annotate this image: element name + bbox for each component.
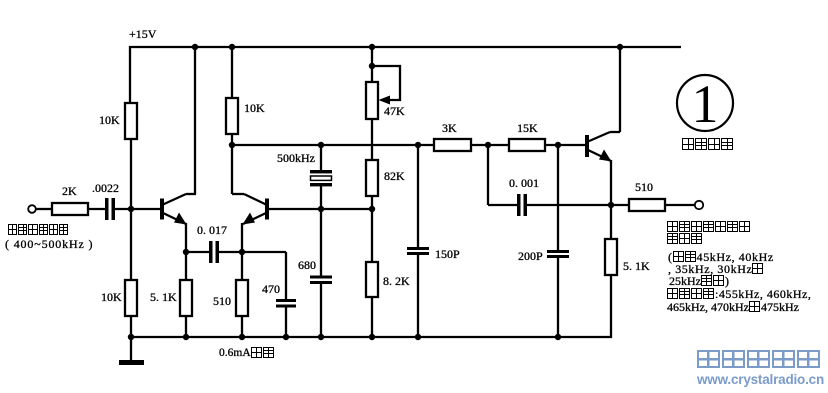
wire C0022 to Q1 base [115, 208, 160, 210]
node Q3 base / C200P branch [555, 142, 561, 148]
note line1 [667, 221, 751, 233]
wire Q3 emitter down [610, 160, 612, 205]
wire Q1 collector to rail [194, 47, 196, 194]
wire 3K to 15K [471, 144, 509, 146]
resistor R1 10K [125, 103, 137, 139]
badge circled 1 [677, 74, 733, 134]
wire node to R7 [371, 209, 373, 262]
label 470 [262, 283, 280, 295]
wire rail to R4 [231, 47, 233, 98]
resistor R6 82K [366, 160, 378, 196]
wire 15K to Q3 base [545, 144, 585, 146]
node input base node [128, 206, 134, 212]
wire resonator bottom lead [320, 185, 322, 209]
node Q2 emitter / C017 right [239, 249, 245, 255]
label 15K [517, 122, 538, 134]
wire C001 to emitter node [527, 204, 611, 206]
transistor Q3 [585, 132, 620, 162]
capacitor C .0022 [105, 198, 115, 220]
label 82K [384, 170, 405, 182]
wire R1 bottom to input node [130, 139, 132, 209]
resistor R3 5.1K [180, 280, 192, 316]
wire 2K to C0022 [88, 208, 105, 210]
label 2K [62, 185, 77, 197]
resistor R4 10K [226, 98, 238, 134]
node bus at resonator [318, 142, 324, 148]
node ground rail at C200P [555, 334, 561, 340]
label 3K [442, 122, 457, 134]
label 0.001 [509, 177, 539, 189]
note line3 [668, 251, 774, 263]
label R4 10K [244, 102, 265, 114]
wire C680 to ground rail [320, 284, 322, 337]
ground [119, 337, 144, 363]
wire mid bus y145 [232, 144, 434, 146]
label 500kHz [277, 152, 315, 164]
capacitor C 200P [547, 250, 569, 258]
resistor R5 510 [236, 280, 248, 316]
wire R3 to ground rail [185, 316, 187, 337]
resistor R9 510 [629, 199, 665, 211]
wire C200P to ground rail [557, 258, 559, 337]
wire Q1 emitter down [185, 223, 187, 252]
label 680 [298, 259, 316, 271]
label 510 output [635, 181, 653, 193]
wire R5 to ground rail [241, 316, 243, 337]
wire C001 branch [488, 145, 517, 205]
wire C150P top lead [417, 145, 419, 247]
wire pot bottom through bus to R6 [371, 119, 373, 160]
node base bus at resonator/C680 [318, 206, 324, 212]
label 5.1K right [623, 260, 650, 272]
node ground rail at C150P [415, 334, 421, 340]
note line7 [667, 301, 799, 313]
note line2 [667, 233, 703, 245]
node top rail at Q3 collector [617, 44, 623, 50]
wire R4 to bus node [231, 134, 233, 145]
resistor 2K [52, 203, 88, 215]
note line5 [669, 275, 729, 287]
wire Q2 collector [232, 145, 266, 205]
wire R6 to base bus [371, 196, 373, 209]
resistor 15K [509, 139, 545, 151]
note line6 [667, 288, 811, 300]
capacitor C 470 [276, 299, 296, 308]
label sweep input line2 [5, 238, 93, 250]
label .0022 [92, 182, 119, 194]
capacitor C 0.017 [209, 241, 219, 263]
watermark url [697, 372, 824, 387]
label 8.2K [383, 275, 410, 287]
label +15V [129, 28, 156, 40]
wire C680 top lead [320, 209, 322, 276]
wire Q3 collector to rail [619, 47, 621, 132]
wire 470 branch top [242, 252, 286, 299]
wire bottom ground rail [131, 336, 612, 338]
node top rail at 10K R4 [229, 44, 235, 50]
node ground rail at C680 [318, 334, 324, 340]
resistor R2 10K [125, 280, 137, 316]
label circuit name [682, 138, 734, 150]
node top rail at Q1 collector [192, 44, 198, 50]
wire Q2 emitter down [241, 223, 243, 252]
wire emitter node to R5 [241, 252, 243, 280]
wire C017 right lead [219, 251, 242, 253]
node ground rail at R2 [128, 334, 134, 340]
transistor Q2 [243, 199, 270, 225]
wire left column from rail to R1 [129, 46, 131, 103]
node Q3 emitter / output [608, 202, 614, 208]
wire emitter node to R8 [610, 205, 612, 239]
watermark logo [697, 350, 822, 368]
svg-text:1: 1 [692, 74, 719, 134]
wire rail to 47K pot [371, 47, 373, 82]
resistor 3K [434, 139, 471, 151]
wire resonator top lead [320, 145, 322, 171]
node bus at R4 / Q2 collector [229, 142, 235, 148]
resistor R7 8.2K [366, 262, 378, 297]
wire C017 left lead [186, 251, 209, 253]
capacitor C 0.001 [517, 194, 527, 216]
node ground rail at R3 [183, 334, 189, 340]
resistor R8 5.1K [605, 239, 617, 275]
wire Q2 base bus [269, 208, 372, 210]
capacitor C 680 [310, 276, 332, 285]
label 0.017 [197, 224, 227, 236]
potentiometer 47K wiper [372, 66, 400, 105]
wire input node down to R2 [130, 209, 132, 280]
label 200P [518, 250, 543, 262]
wire 470 to ground rail [285, 307, 287, 337]
node top rail at 47K pot [369, 44, 375, 50]
node bus at C001 [485, 142, 491, 148]
wire R2 bottom to ground rail [130, 316, 132, 338]
label 47K [384, 105, 405, 117]
node wiper tap [369, 63, 375, 69]
wire +15V top rail [129, 46, 681, 48]
wire C150P to ground rail [417, 255, 419, 337]
wire output node to R9 [611, 204, 629, 206]
label R2 10K [101, 291, 122, 303]
resonator 500kHz [310, 170, 332, 186]
node base bus at R6/R7 [369, 206, 375, 212]
wire input to R2K [36, 208, 52, 210]
wire R8 to ground rail [610, 275, 612, 338]
terminal output [695, 201, 703, 209]
wire C200P branch [557, 145, 559, 250]
label 5.1K left [150, 291, 177, 303]
label 150P [435, 248, 460, 260]
node Q1 emitter / C017 left [183, 249, 189, 255]
node ground rail at C470 [283, 334, 289, 340]
wire R9 to output terminal [665, 204, 694, 206]
transistor Q1 [160, 194, 196, 225]
wire R7 to ground rail [371, 297, 373, 337]
label 0.6mA [219, 347, 275, 359]
potentiometer 47K body [366, 82, 378, 119]
node ground rail at R7 [369, 334, 375, 340]
label sweep input line1 [8, 224, 69, 236]
note line4 [668, 263, 764, 275]
terminal input [28, 205, 36, 213]
wire emitter node to R3 [185, 252, 187, 280]
node bus at C150P [415, 142, 421, 148]
label 510 mid [213, 295, 231, 307]
label R1 10K [99, 114, 120, 126]
node ground rail at R5 [239, 334, 245, 340]
capacitor C 150P [407, 247, 429, 255]
